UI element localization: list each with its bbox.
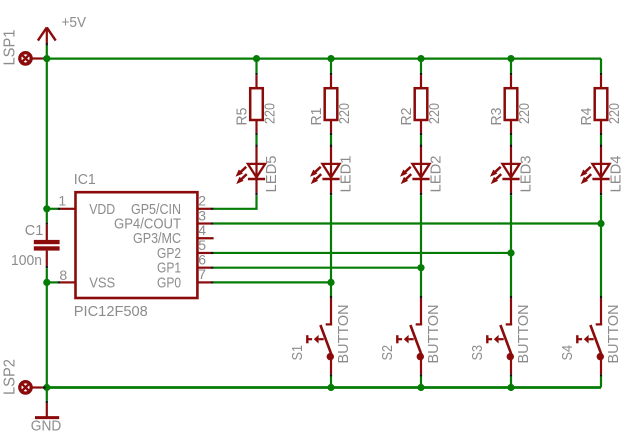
LED LED1: [330, 144, 332, 147]
junction VCC rail left: [43, 55, 50, 62]
junction C1/VDD node: [43, 205, 50, 212]
svg-text:2: 2: [198, 193, 206, 209]
svg-text:BUTTON: BUTTON: [515, 305, 532, 364]
wire GND bottom rail: [46, 386, 601, 389]
wire LED2 to S2: [420, 195, 422, 296]
LED LED2: [420, 144, 422, 147]
wire R5 to LED5: [255, 135, 257, 144]
wire S1 to GND rail: [330, 377, 332, 388]
junction C1/VSS node: [43, 279, 50, 286]
resistor R2: [420, 73, 422, 75]
svg-text:VDD: VDD: [89, 201, 115, 218]
wire +5V to VCC rail: [46, 46, 48, 59]
svg-text:220: 220: [516, 103, 533, 124]
svg-text:S3: S3: [469, 345, 486, 361]
LED LED3: [510, 144, 512, 147]
wire VDD net to pin 1: [47, 208, 58, 210]
svg-text:220: 220: [606, 103, 623, 124]
junction GND rail at S1: [327, 384, 334, 391]
wire LED1 to S1: [330, 195, 332, 296]
svg-text:R2: R2: [398, 108, 415, 126]
svg-text:GP0: GP0: [157, 274, 181, 291]
svg-text:220: 220: [261, 103, 278, 124]
svg-text:BUTTON: BUTTON: [425, 305, 442, 364]
junction VCC rail at R2: [417, 55, 424, 62]
pin 7: [197, 281, 211, 283]
svg-text:+5V: +5V: [62, 14, 87, 31]
svg-text:R5: R5: [233, 108, 250, 126]
svg-text:LSP2: LSP2: [2, 359, 19, 395]
wire GP2 pin5 to LED3 column: [214, 252, 511, 254]
wire GP1 pin6 to LED2 column: [214, 267, 421, 269]
svg-text:C1: C1: [25, 222, 44, 239]
svg-text:8: 8: [59, 267, 67, 283]
junction VCC rail at R1: [327, 55, 334, 62]
wire VCC left rail upper: [46, 59, 48, 223]
wire S3 to GND rail: [510, 377, 512, 388]
svg-text:LED1: LED1: [338, 156, 355, 193]
svg-text:220: 220: [336, 103, 353, 124]
wire S2 to GND rail: [420, 377, 422, 388]
wire GND left rail lower: [46, 268, 48, 387]
pin 4: [197, 237, 213, 239]
resistor R1: [330, 73, 332, 75]
capacitor C1: [46, 222, 48, 224]
svg-text:3: 3: [198, 207, 206, 223]
button S4: [600, 296, 602, 298]
svg-text:220: 220: [426, 103, 443, 124]
wire R3 to LED3: [510, 135, 512, 144]
wire GP4 pin3 to LED4 column: [214, 222, 601, 224]
junction GP0 node: [327, 279, 334, 286]
junction VCC rail at R5: [253, 55, 260, 62]
button S2: [420, 296, 422, 298]
junction GP4 node: [597, 220, 604, 227]
LED LED4: [600, 144, 602, 147]
svg-text:IC1: IC1: [74, 171, 96, 188]
svg-text:4: 4: [198, 222, 206, 238]
svg-text:S4: S4: [559, 345, 576, 361]
wire R2 to LED2: [420, 135, 422, 144]
wire GP5 pin2 to LED5: [214, 195, 257, 209]
svg-text:LED2: LED2: [428, 156, 445, 193]
svg-text:7: 7: [198, 266, 206, 282]
junction GP2 node: [507, 249, 514, 256]
button S3: [510, 296, 512, 298]
svg-text:S2: S2: [379, 345, 396, 361]
pin 5: [197, 252, 211, 254]
button S1: [330, 296, 332, 298]
svg-text:PIC12F508: PIC12F508: [74, 303, 148, 320]
wire R1 to LED1: [330, 135, 332, 144]
svg-text:LSP1: LSP1: [2, 29, 19, 65]
svg-text:LED5: LED5: [263, 156, 280, 193]
wire LED3 to S3: [510, 195, 512, 296]
resistor R3: [510, 73, 512, 75]
svg-text:1: 1: [58, 193, 66, 209]
svg-text:VSS: VSS: [89, 274, 115, 291]
wire VCC rail to R2: [420, 59, 422, 73]
svg-text:LED3: LED3: [518, 156, 535, 193]
junction GND rail at S3: [507, 384, 514, 391]
svg-text:100n: 100n: [11, 252, 42, 269]
ground symbol GND: [46, 401, 48, 404]
svg-text:BUTTON: BUTTON: [335, 305, 352, 364]
op IC1 PIC12F508 body: [76, 192, 198, 298]
svg-text:BUTTON: BUTTON: [605, 305, 622, 364]
resistor R5: [255, 73, 257, 75]
pin 6: [197, 267, 211, 269]
wire R4 to LED4: [600, 135, 602, 144]
svg-text:GND: GND: [31, 418, 62, 435]
pin 1 VDD: [58, 208, 61, 210]
wire GP0 pin7 to LED1 column: [214, 281, 331, 283]
svg-text:S1: S1: [289, 345, 306, 361]
junction GND rail at S2: [417, 384, 424, 391]
solder pad LSP1: [20, 53, 31, 64]
svg-text:LED4: LED4: [608, 156, 625, 193]
svg-text:R3: R3: [488, 108, 505, 126]
svg-text:5: 5: [198, 237, 206, 253]
wire VCC rail to R5: [255, 59, 257, 73]
wire VCC rail to R1: [330, 59, 332, 73]
wire VSS net to pin 8: [47, 281, 58, 283]
wire VCC top rail: [46, 57, 601, 59]
junction GND rail left: [43, 384, 50, 391]
pin 2: [197, 208, 211, 210]
resistor R4: [600, 73, 602, 75]
wire VCC rail to R4: [600, 59, 602, 73]
svg-text:R1: R1: [308, 108, 325, 126]
power symbol +5V: [46, 29, 48, 43]
solder pad LSP2: [20, 382, 31, 393]
LED LED5: [255, 144, 257, 147]
pin 8 VSS: [58, 281, 61, 283]
wire GND stub: [46, 388, 48, 401]
wire VCC rail to R3: [510, 59, 512, 73]
wire S4 to GND rail: [600, 377, 602, 388]
pin 3: [197, 222, 211, 224]
junction VCC rail at R3: [507, 55, 514, 62]
svg-text:6: 6: [198, 251, 206, 267]
wire LED4 to S4: [600, 195, 602, 296]
svg-text:R4: R4: [578, 108, 595, 126]
junction GP1 node: [417, 264, 424, 271]
